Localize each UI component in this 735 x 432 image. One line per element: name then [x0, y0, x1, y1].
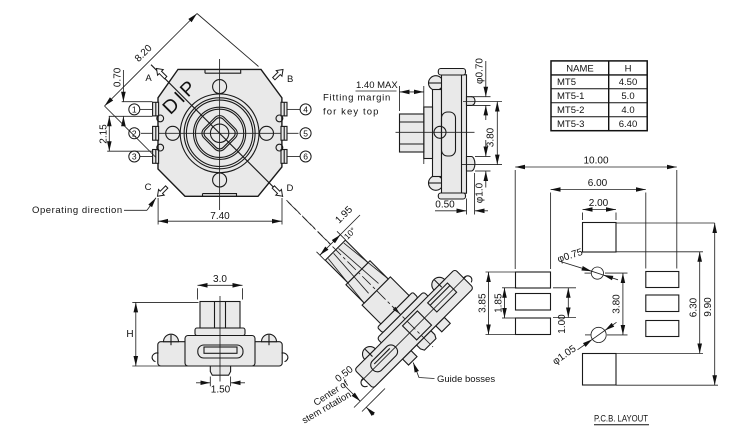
stem: [400, 114, 424, 152]
dim 0.50 rot: [354, 385, 377, 408]
bottom boss: [210, 366, 230, 375]
dim 3.80 side: [463, 101, 502, 103]
compass hole left: [166, 126, 180, 140]
svg-text:H: H: [126, 329, 133, 340]
bottom boss rot: [417, 331, 438, 352]
axis center line: [288, 202, 433, 347]
svg-text:A: A: [145, 73, 152, 84]
dim 2.00: [582, 213, 584, 221]
body: [442, 75, 467, 193]
centerline: [219, 296, 221, 382]
guide boss left: [403, 351, 417, 365]
dim 8.20: [105, 14, 198, 107]
dim phi0.70: [471, 96, 491, 98]
terminal curl rot left: [359, 378, 370, 389]
top cap: [438, 69, 465, 76]
pin 3 callout: [140, 156, 153, 158]
svg-text:4.0: 4.0: [621, 105, 634, 116]
bottom cap: [438, 193, 465, 199]
dashed diagonal to rotated view: [287, 200, 334, 247]
wing boss arc right: [262, 334, 277, 341]
svg-text:3: 3: [132, 152, 137, 162]
pin 4 callout: [287, 108, 300, 110]
stem rounded square inner: [202, 116, 237, 151]
dim 3.85: [486, 271, 517, 273]
pad bottom: [583, 354, 617, 386]
compass hole top: [213, 80, 227, 94]
ring circle r35.5: [184, 98, 255, 169]
terminal tab 1: [153, 102, 159, 116]
terminal bump 1: [157, 115, 164, 122]
stem center circle: [210, 124, 228, 142]
terminal bump 6: [276, 144, 283, 151]
compass hole bottom: [213, 173, 227, 187]
wing slot left: [368, 342, 400, 374]
stem: [200, 302, 240, 329]
svg-text:9.90: 9.90: [703, 297, 714, 317]
svg-text:4: 4: [303, 104, 308, 114]
ring circle r24.1: [196, 109, 244, 157]
terminal curl rot right: [463, 274, 474, 285]
pin 5 callout: [300, 128, 311, 139]
flange: [424, 107, 433, 159]
hole bottom phi1.05: [591, 327, 606, 342]
keyway circle: [434, 126, 446, 138]
rotation center arrow: [393, 307, 401, 315]
guide boss right: [436, 317, 450, 331]
svg-text:6.30: 6.30: [688, 297, 699, 317]
dim 1.00: [553, 287, 576, 289]
dim 0.70: [122, 101, 153, 103]
keyway recess: [198, 345, 243, 358]
terminal curl right: [282, 353, 288, 362]
stem base rot: [362, 277, 409, 324]
svg-text:2.00: 2.00: [589, 198, 609, 209]
svg-text:φ0.70: φ0.70: [475, 58, 486, 84]
pin 2 callout: [129, 128, 140, 139]
ring circle r33.2: [186, 100, 252, 166]
pin 6 callout: [287, 156, 300, 158]
hole top phi0.75: [591, 267, 603, 279]
phi0.75 callout: [562, 262, 592, 271]
svg-text:2.15: 2.15: [98, 124, 109, 144]
direction arrow A: [154, 66, 169, 81]
svg-text:Guide bosses: Guide bosses: [437, 374, 495, 385]
svg-text:6.40: 6.40: [619, 119, 638, 130]
center body rot: [377, 292, 447, 362]
svg-text:MT5-2: MT5-2: [557, 105, 584, 116]
svg-text:3.85: 3.85: [477, 293, 488, 313]
pin 1 callout: [140, 108, 153, 110]
svg-text:1.40 MAX: 1.40 MAX: [356, 80, 398, 91]
svg-text:1: 1: [132, 104, 137, 114]
dim 0.50 side: [466, 199, 468, 215]
dim 1.95: [317, 252, 326, 261]
svg-text:3.80: 3.80: [486, 127, 497, 147]
svg-text:for key top: for key top: [323, 107, 379, 118]
svg-text:4.50: 4.50: [619, 77, 638, 88]
svg-text:Operating direction: Operating direction: [32, 205, 123, 216]
svg-text:C: C: [145, 182, 152, 193]
svg-text:7.40: 7.40: [210, 211, 230, 222]
outer circle r39.4: [180, 94, 259, 173]
centerline horizontal: [141, 132, 299, 134]
wing slot right: [428, 283, 457, 312]
dim 1.85: [502, 287, 517, 289]
svg-text:6: 6: [303, 152, 308, 162]
stem flange: [195, 328, 245, 336]
dim 10.00: [514, 170, 516, 269]
top edge tab mark: [205, 69, 241, 73]
stem flange rot: [377, 292, 418, 333]
direction arrow D: [270, 184, 285, 199]
wing boss arc rot right: [429, 274, 445, 290]
svg-text:2: 2: [132, 128, 137, 138]
base wings: [158, 342, 282, 366]
direction arrow B: [271, 67, 286, 82]
svg-text:6.00: 6.00: [588, 178, 608, 189]
diagonal A-D line: [151, 65, 283, 197]
octagon body: [158, 69, 282, 196]
svg-text:1.85: 1.85: [493, 293, 504, 313]
svg-text:1.50: 1.50: [211, 384, 231, 395]
svg-text:0.70: 0.70: [112, 67, 123, 87]
svg-text:Fitting margin: Fitting margin: [323, 93, 391, 104]
direction arrow C: [155, 184, 170, 199]
svg-text:0.50: 0.50: [435, 200, 455, 211]
dim H: [132, 301, 198, 303]
ring circle r26.1: [194, 107, 246, 159]
svg-text:P.C.B. LAYOUT: P.C.B. LAYOUT: [594, 414, 648, 425]
pad left 3: [516, 318, 551, 335]
wing boss arc left: [164, 334, 179, 341]
phi1.05 callout: [578, 339, 593, 350]
base wings rot: [354, 269, 473, 388]
stem fan lines: [324, 259, 368, 303]
terminal tab 5: [281, 126, 287, 140]
svg-text:3.80: 3.80: [612, 294, 623, 314]
tick left of top hole: [585, 272, 592, 274]
corner boss circle top: [429, 76, 444, 91]
dim phi1.0: [475, 156, 491, 158]
terminal tab 3: [153, 150, 159, 164]
centerline: [396, 131, 475, 133]
keyway: [442, 112, 456, 156]
svg-text:H: H: [625, 64, 632, 75]
dim 6.00: [550, 193, 552, 270]
svg-text:MT5-1: MT5-1: [557, 91, 584, 102]
terminal right bottom: [467, 157, 475, 172]
tab inner lines: [156, 102, 284, 163]
svg-text:φ1.0: φ1.0: [475, 182, 486, 203]
svg-text:10.00: 10.00: [583, 156, 608, 167]
stem rounded square outer: [199, 113, 240, 154]
pad top: [583, 223, 617, 253]
svg-text:3.0: 3.0: [213, 274, 227, 285]
center tower outline: [403, 311, 432, 340]
terminal tab 4: [281, 102, 287, 116]
base centerline rot: [362, 276, 467, 381]
pad left 2: [516, 294, 551, 311]
dim 2.15: [109, 115, 153, 117]
dim 9.90: [616, 222, 715, 224]
terminal bump 3: [157, 144, 164, 151]
stem tip rot: [325, 240, 368, 283]
center body: [185, 336, 255, 367]
dim 3.80 pcb: [605, 272, 628, 274]
svg-text:NAME: NAME: [566, 64, 593, 75]
terminal curl left: [152, 353, 158, 362]
svg-text:MT5: MT5: [557, 77, 576, 88]
svg-text:1.00: 1.00: [557, 314, 568, 334]
tick left of bottom hole: [585, 334, 591, 336]
svg-text:D: D: [287, 183, 294, 194]
dim 3.0: [197, 288, 199, 299]
corner boss circle bottom: [429, 176, 444, 191]
svg-text:5: 5: [303, 128, 308, 138]
dim 1.50: [209, 377, 211, 387]
svg-text:MT5-3: MT5-3: [557, 119, 584, 130]
svg-text:B: B: [287, 74, 293, 85]
stem mid rot: [346, 261, 388, 303]
pad right 1: [646, 272, 679, 288]
pad left 1: [516, 272, 551, 288]
terminal tab 2: [153, 126, 159, 140]
pad right 3: [646, 321, 679, 337]
terminal right top: [467, 97, 475, 106]
dim 6.30: [616, 251, 703, 253]
compass hole right: [260, 126, 274, 140]
wing boss arc rot left: [359, 343, 375, 359]
dim 7.40: [157, 198, 159, 225]
bottom edge tab mark: [203, 194, 237, 197]
terminal bump 4: [276, 115, 283, 122]
leader chords through holes: [592, 271, 604, 275]
centerline vertical: [219, 59, 221, 210]
svg-text:5.0: 5.0: [621, 91, 634, 102]
mid plate: [433, 90, 442, 177]
pad right 2: [646, 295, 679, 312]
terminal tab 6: [281, 150, 287, 164]
